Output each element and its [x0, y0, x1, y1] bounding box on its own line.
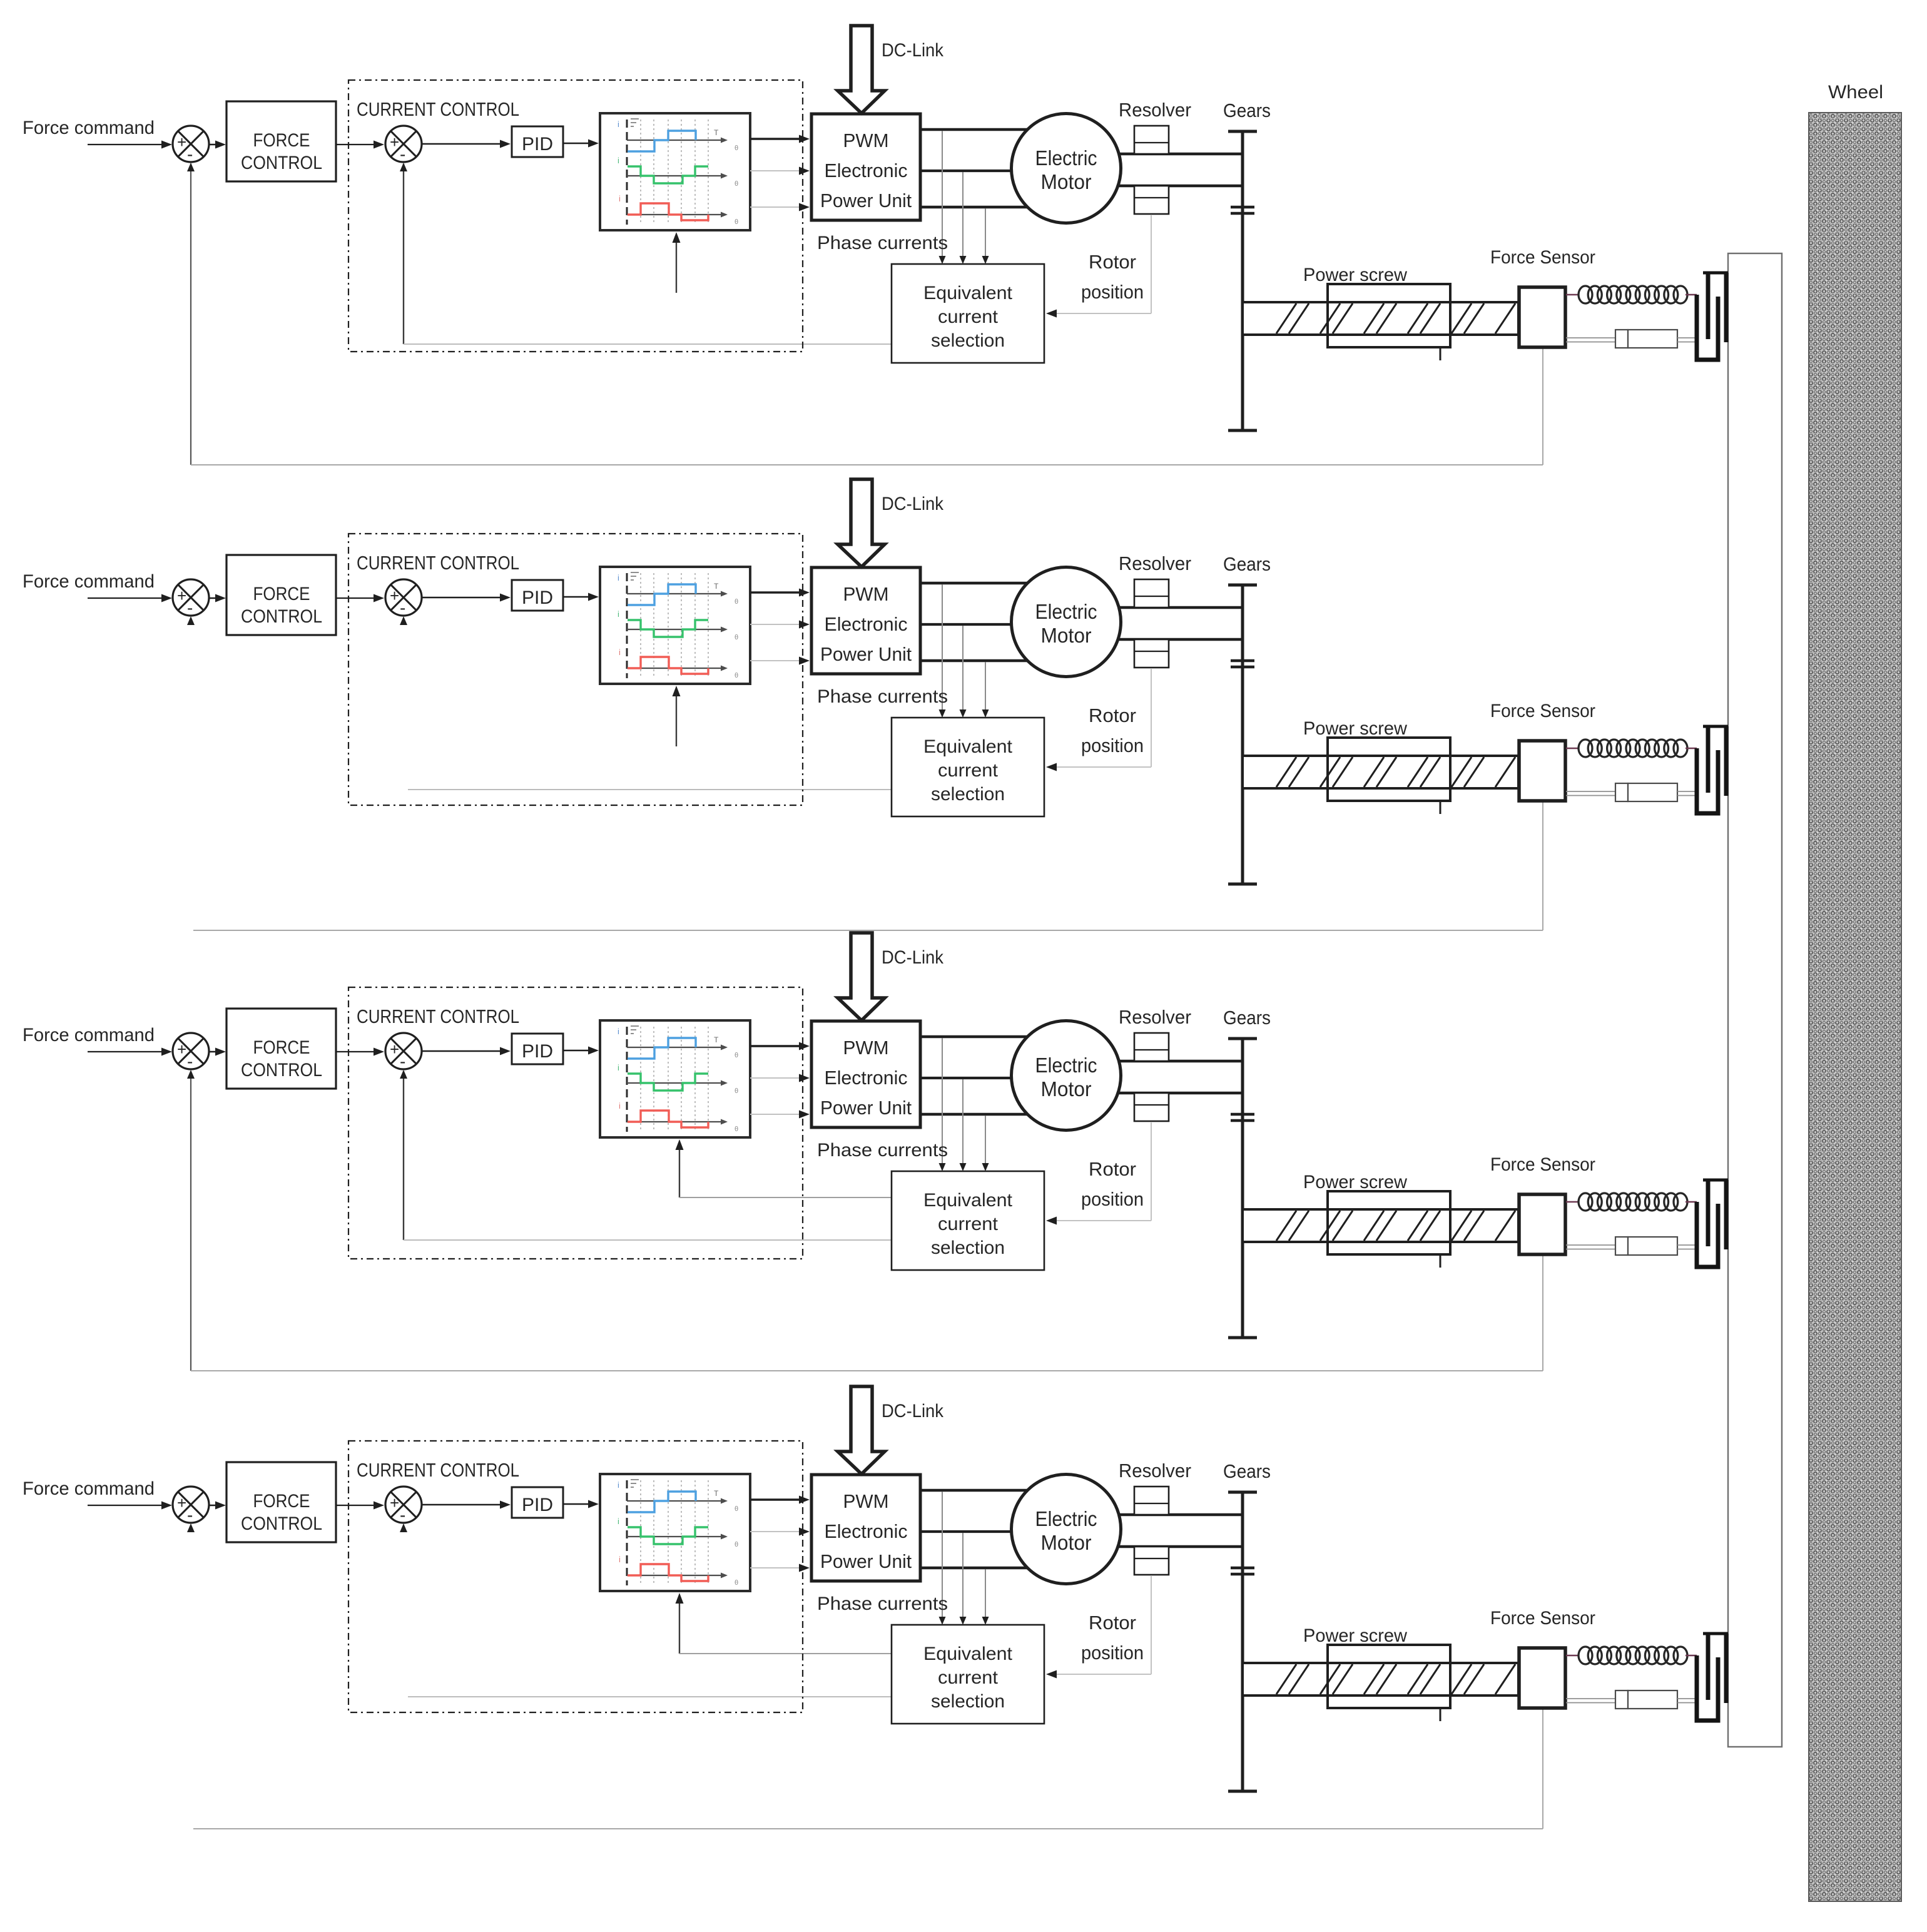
- svg-text:+: +: [390, 133, 399, 151]
- wire phase current measurement 3: [985, 208, 986, 259]
- svg-text:Phase currents: Phase currents: [817, 233, 948, 253]
- actuator channel row 3: [23, 933, 1728, 1338]
- wire plot feedback arrow (floating) row1: [676, 236, 677, 293]
- svg-text:CURRENT CONTROL: CURRENT CONTROL: [357, 99, 519, 120]
- dashed box CURRENT CONTROL: [348, 80, 803, 352]
- caliper wall finger: [1706, 273, 1711, 339]
- svg-text:Rotor: Rotor: [1089, 251, 1136, 273]
- svg-text:Electronic: Electronic: [825, 160, 908, 181]
- caliper wall edge bar: [1724, 273, 1729, 342]
- svg-text:Power Unit: Power Unit: [820, 190, 912, 211]
- wire EQ to J2 horizontal row2: [408, 789, 892, 790]
- plot gridlines: [640, 119, 641, 225]
- plot blue trace: [628, 131, 696, 151]
- wire force command input: [88, 144, 169, 145]
- resolver top half: [1134, 126, 1169, 154]
- power screw shaft hatched: [1243, 302, 1518, 335]
- svg-text:θ: θ: [735, 180, 738, 188]
- gears shaft vertical: [1241, 131, 1244, 430]
- wire plot to PWM bottom (light): [750, 206, 806, 208]
- block FORCE CONTROL: [226, 101, 336, 181]
- svg-text:-: -: [400, 145, 405, 164]
- wire PID to PWM plot: [563, 143, 596, 145]
- wire J2 feedback vertical row3: [403, 1071, 404, 1240]
- damper rod right: [1677, 337, 1697, 338]
- svg-text:Equivalent: Equivalent: [923, 283, 1013, 303]
- svg-text:+: +: [177, 133, 186, 151]
- block Equivalent current selection: [892, 264, 1044, 363]
- power screw nut: [1328, 284, 1450, 347]
- wheel textured bar: [1809, 113, 1901, 1901]
- resolver bottom half: [1134, 186, 1169, 214]
- summing junction J2: [385, 126, 422, 162]
- gears coupling ticks: [1231, 206, 1254, 209]
- svg-text:PID: PID: [522, 134, 553, 155]
- summing junction J1: [173, 126, 209, 162]
- plot red trace: [628, 203, 708, 220]
- damper rod left: [1566, 337, 1615, 338]
- svg-text:selection: selection: [931, 330, 1005, 351]
- svg-text:i: i: [618, 119, 619, 129]
- wire phase current measurement 2: [962, 172, 963, 259]
- plot vertical axis: [626, 119, 628, 225]
- caliper wall cap: [1703, 272, 1728, 275]
- wire force sensor loop row4: [193, 1828, 1543, 1829]
- wire PWM to motor phase B: [920, 170, 1026, 172]
- svg-text:Force command: Force command: [23, 118, 155, 138]
- svg-text:Electric: Electric: [1035, 146, 1097, 170]
- wire EQ to J2 horizontal row3: [404, 1239, 892, 1241]
- svg-text:-: -: [187, 145, 193, 164]
- svg-text:Motor: Motor: [1041, 170, 1092, 193]
- plot green trace: [628, 166, 708, 183]
- gears bottom cap: [1228, 429, 1257, 432]
- svg-text:i: i: [619, 194, 621, 203]
- wire plot feedback arrow row3: [679, 1143, 680, 1197]
- svg-text:PWM: PWM: [843, 130, 889, 151]
- plot axis 1: [627, 140, 725, 141]
- svg-text:FORCE: FORCE: [253, 130, 310, 151]
- wire J1 feedback vertical row3: [190, 1071, 191, 1371]
- svg-text:i: i: [618, 156, 619, 165]
- svg-text:current: current: [938, 307, 999, 327]
- wire FORCE CONTROL to J2: [336, 144, 381, 145]
- upright connecting plate: [1728, 253, 1782, 1747]
- wire J2 feedback vertical row1: [403, 164, 404, 344]
- svg-text:DC-Link: DC-Link: [882, 40, 944, 61]
- spring connector left: [1566, 294, 1579, 296]
- DC-Link hollow arrow: [838, 26, 885, 113]
- block PID: [512, 126, 563, 157]
- actuator channel row 1: [23, 26, 1728, 430]
- actuator channel row 2: [23, 479, 1728, 884]
- wire EQ to J2 horizontal row4: [408, 1696, 892, 1697]
- actuator channel row 4: [23, 1386, 1728, 1791]
- plot axis 3: [627, 214, 725, 215]
- wire J2 to PID: [422, 143, 507, 145]
- damper body: [1615, 330, 1628, 348]
- wire plot feedback arrow (floating) row2: [676, 689, 677, 746]
- wire PWM to motor phase C: [920, 206, 1039, 209]
- svg-text:Force Sensor: Force Sensor: [1490, 247, 1595, 268]
- svg-text:position: position: [1081, 281, 1144, 303]
- svg-text:T: T: [714, 128, 719, 137]
- wire force sensor loop row3: [191, 1370, 1543, 1371]
- wire force sensor loop row2: [193, 930, 1543, 931]
- svg-text:Power screw: Power screw: [1303, 265, 1407, 285]
- wire force sensor loop row1: [191, 464, 1543, 465]
- block Electric Motor: [1012, 114, 1121, 223]
- wire J1 feedback vertical row1: [190, 164, 191, 465]
- svg-text:θ: θ: [735, 218, 738, 226]
- block PWM waveform plot: [600, 113, 750, 230]
- svg-text:Gears: Gears: [1223, 99, 1271, 121]
- plot axis 2: [627, 175, 725, 176]
- svg-text:Wheel: Wheel: [1828, 82, 1883, 103]
- wire PWM to motor phase A: [920, 128, 1039, 131]
- shaft motor to gears: [1119, 153, 1243, 156]
- svg-text:CONTROL: CONTROL: [241, 153, 322, 173]
- spring connector right: [1685, 294, 1697, 296]
- svg-text:Resolver: Resolver: [1119, 99, 1191, 121]
- wire plot feedback arrow row4: [679, 1597, 680, 1654]
- spring coil: [1579, 286, 1687, 303]
- wire J1 to FORCE CONTROL: [209, 144, 223, 146]
- svg-text:θ: θ: [735, 145, 738, 152]
- wire EQ to J2 horizontal row1: [404, 343, 892, 345]
- wire plot to PWM top: [750, 138, 806, 140]
- wire plot to PWM mid (light): [750, 170, 806, 171]
- gears top cap: [1228, 130, 1257, 133]
- block force sensor: [1519, 287, 1565, 347]
- caliper U bracket: [1697, 295, 1718, 360]
- block PWM Electronic Power Unit: [811, 114, 920, 220]
- wire phase current measurement 1: [942, 131, 943, 259]
- wire rotor position: [1151, 215, 1152, 313]
